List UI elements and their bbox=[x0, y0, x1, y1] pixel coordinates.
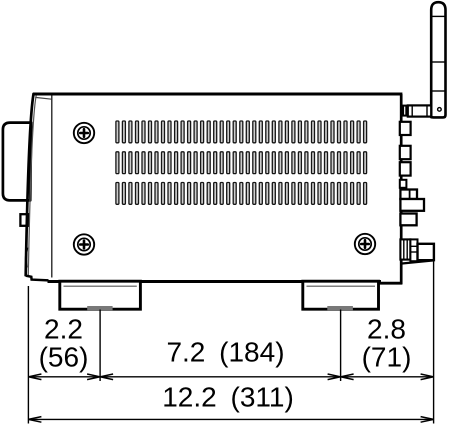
svg-text:7.2 (184): 7.2 (184) bbox=[166, 337, 284, 368]
antenna jack collar bbox=[400, 239, 410, 259]
extension line foot1 bbox=[99, 310, 101, 382]
chassis body fill bbox=[52, 94, 401, 282]
antenna jack collar rib 1 bbox=[403, 240, 405, 259]
antenna segment joint upper bbox=[431, 61, 445, 63]
extension line left bbox=[27, 286, 29, 424]
antenna mount collar rib 1 bbox=[402, 106, 404, 116]
front face thin inner line bbox=[28, 96, 36, 276]
screw bottom-right bbox=[355, 234, 375, 254]
antenna jack collar rib 2 bbox=[406, 240, 408, 259]
front lower bulge bbox=[26, 248, 27, 268]
foot right inner line bbox=[307, 285, 376, 287]
svg-text:(71): (71) bbox=[362, 342, 412, 373]
svg-text:2.2: 2.2 bbox=[44, 314, 83, 345]
foot left bbox=[60, 281, 141, 309]
front panel boundary line bbox=[51, 96, 53, 278]
antenna mount body rib right bbox=[426, 106, 428, 116]
extension line right bbox=[433, 262, 435, 424]
antenna jack bottom slant bbox=[401, 260, 434, 263]
front panel bottom edge bbox=[26, 276, 49, 281]
dimension line row1 bbox=[28, 376, 433, 378]
foot right bbox=[303, 281, 379, 309]
foot right pad bbox=[327, 306, 353, 310]
svg-text:(56): (56) bbox=[39, 341, 89, 372]
chassis bottom edge rear step bbox=[379, 282, 402, 285]
front face edge bbox=[26, 93, 34, 276]
rear terminal E divider bbox=[409, 190, 411, 199]
antenna mount collar rib 2 bbox=[405, 106, 407, 116]
antenna rod bbox=[431, 2, 445, 117]
chassis bottom edge bbox=[48, 280, 382, 283]
antenna segment joint lower bbox=[431, 90, 445, 92]
antenna mount collar bbox=[400, 106, 408, 116]
dimension line row2 bbox=[28, 418, 433, 420]
chassis top edge bbox=[33, 93, 402, 96]
antenna mount body bbox=[408, 105, 431, 116]
rear terminal E upper bbox=[400, 190, 417, 200]
small front tab bbox=[20, 214, 28, 226]
screw top-left bbox=[74, 123, 94, 143]
front panel top bevel line bbox=[35, 97, 51, 99]
rear terminal F bbox=[400, 214, 416, 226]
screw bottom-left bbox=[74, 234, 94, 254]
rear connector bump C bbox=[400, 162, 411, 175]
antenna pivot screw bbox=[438, 108, 442, 112]
svg-text:12.2 (311): 12.2 (311) bbox=[162, 381, 294, 412]
chassis rear edge bbox=[400, 94, 403, 284]
antenna mount body rib left bbox=[411, 106, 413, 116]
foot left pad bbox=[87, 306, 112, 310]
antenna jack body bbox=[418, 244, 434, 260]
antenna jack mid line 1 bbox=[411, 245, 418, 247]
volume knob bbox=[3, 123, 31, 201]
rear connector bump A bbox=[400, 122, 411, 135]
rear connector bump D bbox=[400, 180, 407, 188]
vent slots bbox=[116, 121, 367, 204]
arrows dim row1 bbox=[28, 374, 433, 380]
extension line foot2 bbox=[340, 310, 342, 382]
antenna jack mid piece bbox=[410, 239, 417, 261]
arrows dim row2 bbox=[28, 417, 433, 423]
rear terminal E lower bbox=[400, 199, 424, 211]
rear connector bump B bbox=[400, 146, 411, 159]
antenna jack mid line 2 bbox=[411, 251, 418, 253]
foot left inner line bbox=[64, 285, 137, 287]
antenna cap joint line bbox=[432, 15, 446, 17]
svg-text:2.8: 2.8 bbox=[367, 314, 406, 345]
